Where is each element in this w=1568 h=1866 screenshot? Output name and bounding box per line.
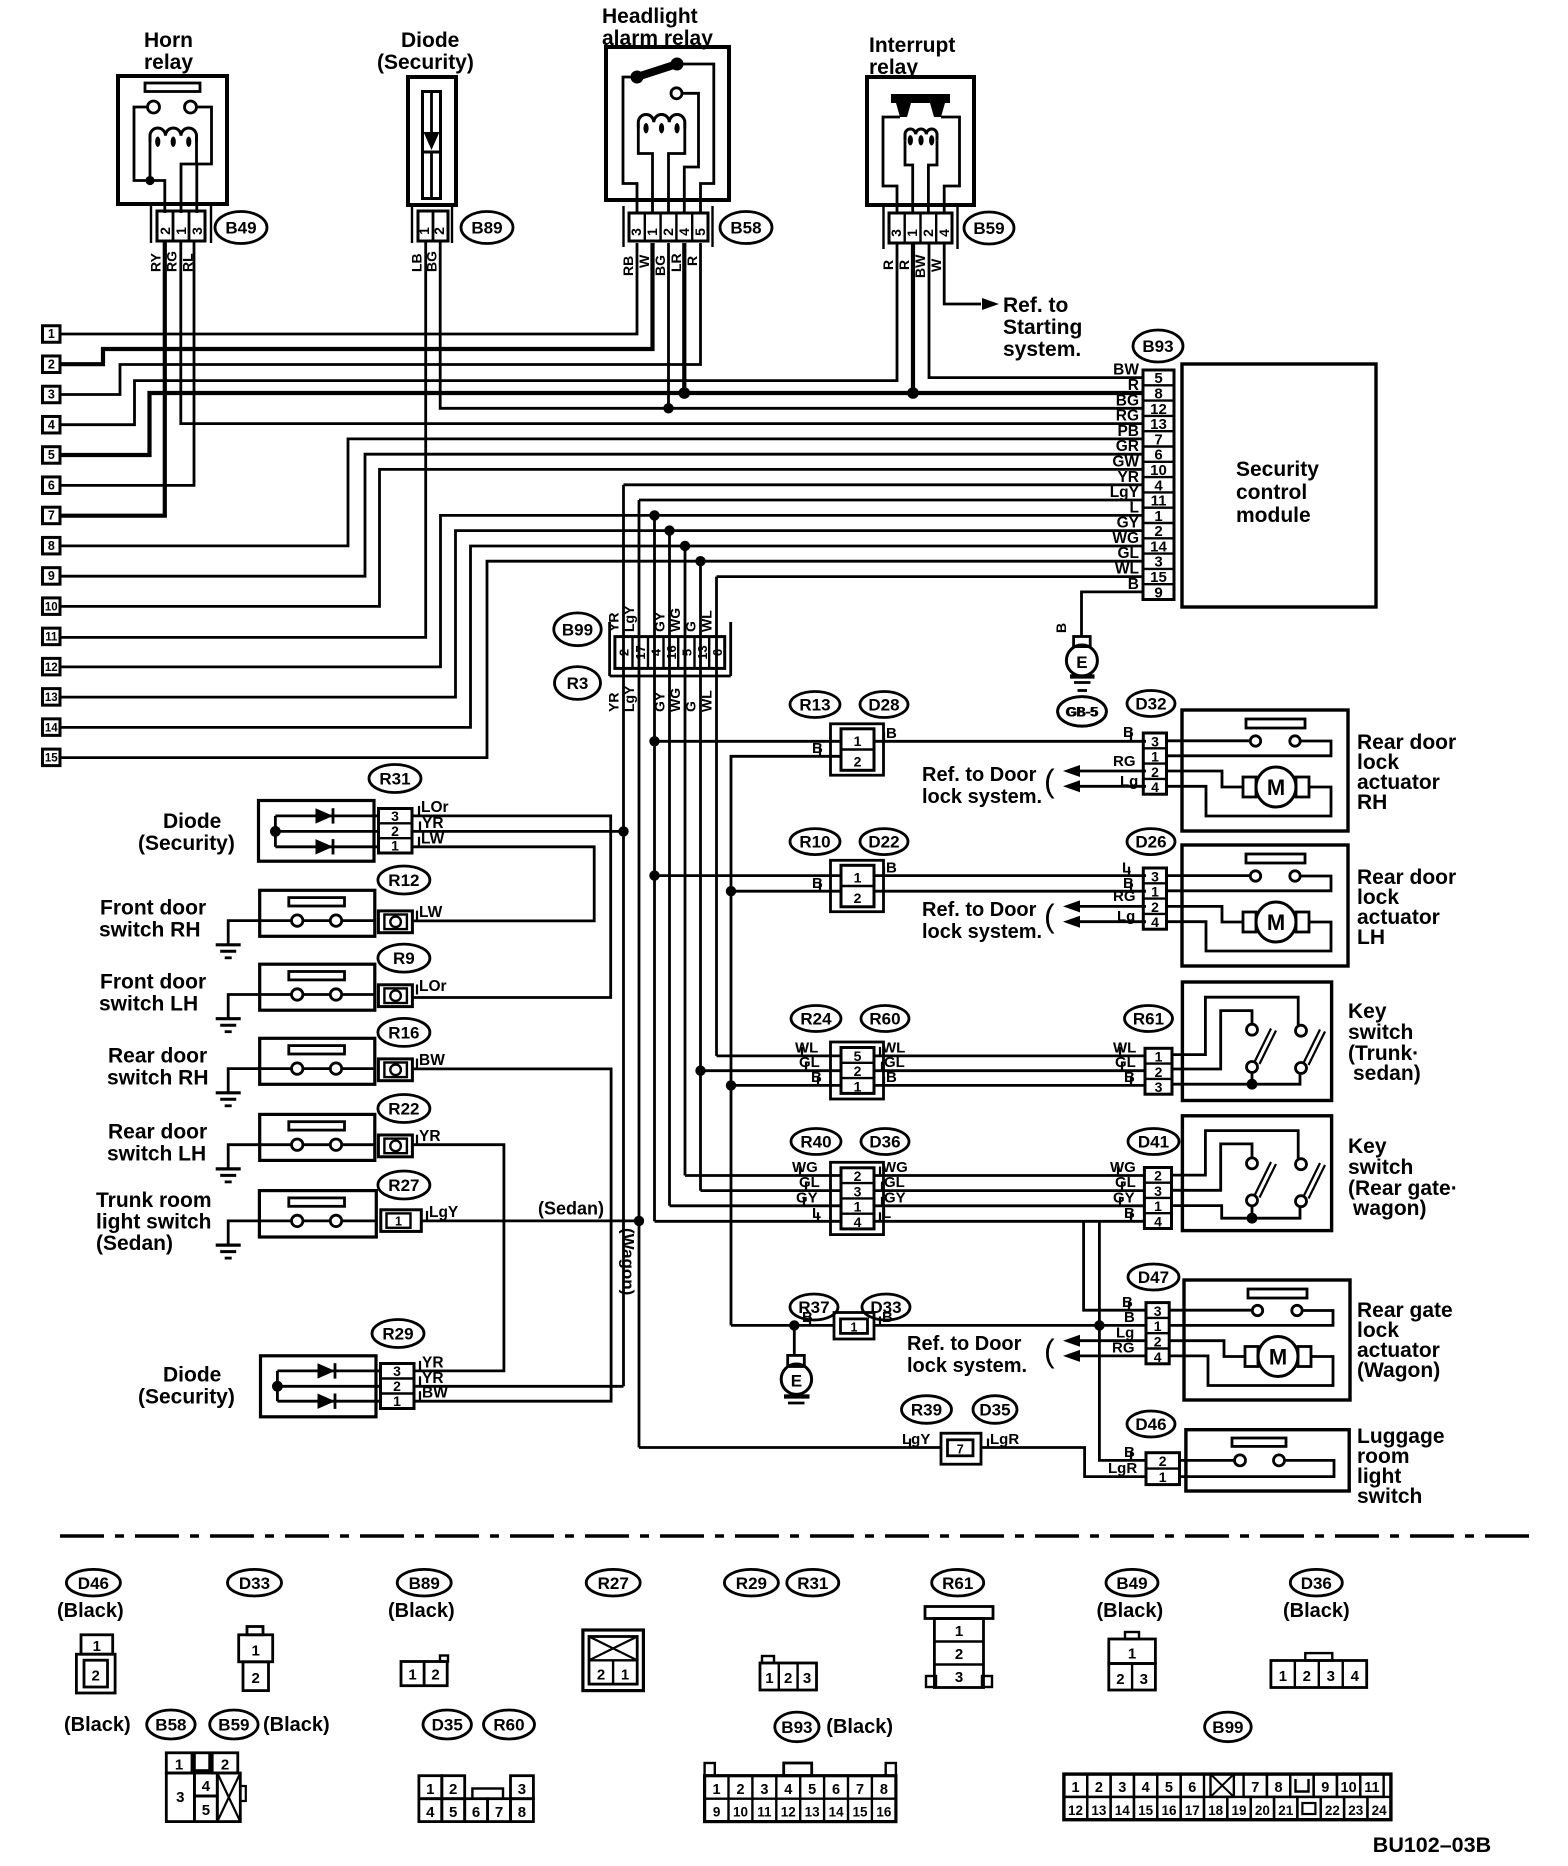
svg-text:2: 2: [393, 1378, 401, 1394]
connector face R29/R31: [762, 1656, 774, 1663]
svg-text:13: 13: [805, 1805, 821, 1820]
svg-text:1: 1: [1128, 1645, 1136, 1662]
svg-text:LgY: LgY: [902, 1431, 930, 1448]
node junction B / ground E: [789, 1320, 799, 1330]
switch D46 slider bar: [1232, 1438, 1286, 1446]
svg-text:R39: R39: [911, 1401, 942, 1420]
svg-text:1: 1: [48, 327, 55, 341]
wire YR net: R22 to R29 pin3: [414, 1145, 504, 1371]
wire B58 contact to pin 4: [682, 93, 699, 213]
svg-text:2: 2: [854, 754, 862, 770]
svg-text:D41: D41: [1138, 1133, 1169, 1152]
svg-text:7: 7: [957, 1442, 964, 1456]
wire GL net: R60 to R61 pin2: [874, 1069, 1145, 1072]
svg-text:3: 3: [854, 1183, 862, 1199]
connector face R61: [925, 1607, 993, 1619]
switch R22 box: [260, 1114, 375, 1160]
node R31 common junction: [270, 826, 281, 837]
svg-text:1: 1: [175, 1756, 183, 1773]
node terminal box 14: [43, 719, 61, 736]
connector B58 cells: [629, 213, 708, 241]
svg-text:D28: D28: [868, 696, 899, 715]
svg-text:(: (: [1044, 763, 1055, 799]
svg-text:R27: R27: [598, 1574, 629, 1593]
wire switch R27 to ground: [228, 1221, 291, 1245]
node terminal box 10: [43, 598, 61, 615]
svg-text:Rear door: Rear door: [108, 1121, 207, 1144]
svg-text:5: 5: [48, 448, 55, 462]
svg-text:1: 1: [621, 1666, 629, 1683]
relay B59 contact left: [896, 103, 911, 117]
svg-text:1: 1: [713, 1782, 721, 1798]
connector id R27: [378, 1171, 430, 1199]
node junction B riser / R24 wire: [726, 1080, 736, 1090]
ground GB-5 bars: [1070, 674, 1095, 678]
svg-text:3: 3: [1327, 1668, 1335, 1685]
node terminal box 13: [43, 689, 61, 706]
connector id R10: [790, 829, 840, 855]
wire B net: R10 pin2 to B riser: [731, 890, 841, 893]
svg-text:3: 3: [1151, 733, 1159, 749]
wire label GL (R60 right): [881, 1062, 883, 1071]
svg-text:18: 18: [1208, 1803, 1224, 1818]
wire label BW (R16): [416, 1059, 418, 1069]
svg-text:E: E: [1076, 653, 1087, 672]
wire switch R22 to ground: [228, 1145, 291, 1169]
svg-text:R31: R31: [379, 770, 410, 789]
wire label GY (D41): [1119, 1197, 1121, 1206]
wire GR net: box9 to B93 pin6: [60, 454, 1143, 576]
svg-text:B: B: [1123, 724, 1134, 741]
svg-text:15: 15: [852, 1805, 868, 1820]
svg-text:4: 4: [202, 1778, 211, 1795]
wire B net: D22 to D26 pin1: [874, 890, 1146, 893]
svg-text:16: 16: [1161, 1803, 1177, 1818]
svg-text:21: 21: [1278, 1803, 1294, 1818]
wire B59 pin4 to starting system with arrow: [944, 243, 981, 304]
svg-text:6: 6: [1188, 1780, 1196, 1796]
relay B59 interrupt relay box: [867, 77, 974, 205]
wire D41 pin3 to switch1 top: [1172, 1144, 1253, 1190]
svg-text:LW: LW: [421, 831, 445, 848]
wire label WL (R60 right): [879, 1047, 881, 1056]
svg-text:switch LH: switch LH: [107, 1143, 206, 1166]
svg-text:20: 20: [1255, 1803, 1270, 1818]
node junction GY net / box13 line: [664, 525, 674, 535]
wire label GL (D41): [1121, 1182, 1123, 1191]
svg-text:B: B: [886, 1069, 897, 1086]
svg-text:B99: B99: [1212, 1718, 1243, 1737]
key switch R61 connector cells: [1145, 1048, 1172, 1094]
svg-text:R29: R29: [736, 1574, 767, 1593]
wire BW net: R16 to R29 pin1: [412, 1069, 611, 1401]
wire GL net: riser to R24 pin2: [701, 1069, 842, 1072]
svg-text:4: 4: [48, 418, 55, 432]
connector R39/D35 shell: [941, 1433, 981, 1464]
relay B58 contact blade (closed): [637, 64, 677, 77]
svg-text:R60: R60: [869, 1010, 900, 1029]
svg-text:switch RH: switch RH: [107, 1067, 209, 1090]
connector id R12: [378, 866, 430, 894]
svg-text:LgY: LgY: [621, 685, 637, 712]
relay B58 headlight alarm relay box: [606, 47, 729, 200]
wire WG net: riser to R40 pin2: [685, 1174, 841, 1177]
switch D46 box: [1186, 1430, 1349, 1491]
svg-text:2: 2: [955, 1646, 963, 1663]
wire D32 switch return to pin1: [1167, 741, 1332, 756]
svg-text:sedan): sedan): [1353, 1062, 1421, 1085]
svg-text:RH: RH: [1357, 791, 1387, 814]
wire label YR (R29 pin3): [419, 1361, 421, 1371]
wire label B (D33 right): [879, 1316, 881, 1325]
wire label LgY (R39): [909, 1439, 911, 1448]
svg-text:13: 13: [1091, 1803, 1107, 1818]
svg-text:B: B: [812, 875, 823, 892]
wire YR net: vertical B99 riser to B93 pin4: [624, 483, 1144, 486]
svg-text:(Black): (Black): [1097, 1600, 1164, 1622]
svg-text:1: 1: [854, 870, 862, 886]
switch R27 box: [259, 1191, 376, 1237]
wire label YR (R22): [416, 1135, 418, 1145]
node junction L riser / R13 wire: [649, 736, 659, 746]
wire RY net: B49 pin2 to box7 (thick): [60, 242, 165, 516]
wire GL net: vertical B99 riser: [699, 561, 702, 1190]
svg-text:LR: LR: [668, 253, 684, 272]
diode assembly R31 box: [259, 801, 375, 862]
ground (R12): [216, 943, 241, 946]
wire B net: drop to D46 pin2: [1099, 1221, 1146, 1460]
svg-text:8: 8: [48, 539, 55, 553]
switch R9 box: [260, 964, 375, 1010]
wire WG net: vertical B99 riser: [684, 546, 687, 1176]
svg-text:4: 4: [1351, 1668, 1360, 1685]
wire label WL (R24 left): [801, 1047, 803, 1056]
svg-text:3: 3: [393, 1363, 401, 1379]
svg-text:module: module: [1236, 504, 1311, 527]
switch R9 slider bar: [289, 972, 345, 980]
svg-text:R3: R3: [567, 674, 589, 693]
diode R31-2 (bottom): [275, 845, 378, 848]
connector R13/D28 cells: [841, 729, 874, 771]
svg-text:LW: LW: [419, 904, 443, 921]
svg-text:1: 1: [1159, 1469, 1167, 1485]
wire D32 pin2 to motor: [1167, 771, 1244, 787]
switch R16 slider bar: [289, 1046, 345, 1054]
wire B net: D33 to D47 pin1: [874, 1324, 1146, 1327]
connector id B89 (bottom): [397, 1569, 451, 1596]
connector R29 cells: [381, 1364, 415, 1409]
svg-text:16: 16: [664, 645, 679, 659]
wire B58 pin2 drop to BG net: [667, 243, 670, 408]
svg-text:LOr: LOr: [421, 799, 449, 816]
motor M (D32): [1256, 767, 1296, 807]
wire R29 common rail: [276, 1371, 279, 1401]
connector face D35/R60: [419, 1776, 442, 1799]
wire R31 common rail: [274, 816, 277, 847]
svg-text:LgY: LgY: [621, 605, 637, 632]
svg-text:control: control: [1236, 481, 1307, 504]
wire RG net: B49 pin1 to B93 pin13: [181, 242, 1143, 424]
wire horn relay left rail to pin 2: [134, 107, 165, 213]
ref arrows to door lock system (row Wagon): [1080, 1339, 1146, 1342]
connector R31 cells: [379, 809, 413, 854]
wire switch R9 internal: [303, 993, 330, 996]
switch D46 connector cells: [1146, 1453, 1180, 1485]
wire label WG (R40 left): [799, 1167, 801, 1176]
svg-text:3: 3: [391, 808, 399, 824]
svg-text:switch LH: switch LH: [99, 992, 198, 1015]
svg-text:R29: R29: [382, 1325, 413, 1344]
svg-text:lock system.: lock system.: [907, 1355, 1027, 1377]
svg-text:light switch: light switch: [96, 1210, 212, 1233]
svg-text:5: 5: [692, 228, 708, 236]
wire W net: box2 to B58 pin1 (thick): [60, 243, 653, 364]
wire B net: drop to D47 pin3: [1084, 1221, 1146, 1310]
wire label B (R60 right): [883, 1076, 885, 1085]
wire D41 pin1 common bus: [1172, 1206, 1301, 1219]
node terminal box 3: [43, 386, 61, 403]
switch R9 contact left: [292, 989, 303, 1000]
wire GY net: riser to R40 pin1: [670, 1204, 842, 1207]
connector id B89: [461, 212, 513, 244]
svg-text:B59: B59: [973, 219, 1004, 238]
svg-text:B58: B58: [155, 1716, 186, 1735]
connector B99/R3 shell: [608, 622, 611, 676]
wire WL net: R60 to R61 pin1: [874, 1055, 1145, 1058]
wire B net: D36 pin4 to D41 pin4: [874, 1220, 1144, 1223]
switch R27 contact right: [330, 1215, 341, 1226]
svg-text:1: 1: [644, 228, 660, 236]
coil relay B59: [905, 129, 937, 140]
wire D26 motor to pin4: [1167, 922, 1332, 951]
svg-text:17: 17: [633, 645, 648, 659]
wire D32 pin3 to switch: [1167, 739, 1251, 742]
connector face D33: [247, 1627, 263, 1635]
svg-text:13: 13: [45, 692, 58, 704]
svg-text:D35: D35: [979, 1401, 1010, 1420]
connector id R22: [378, 1095, 430, 1123]
wire D47 pin2 to motor: [1169, 1341, 1245, 1357]
wire L net: riser to R40 pin4: [655, 1220, 842, 1223]
svg-text:D36: D36: [869, 1133, 900, 1152]
connector id R24: [791, 1006, 841, 1032]
motor M (D26): [1256, 902, 1296, 942]
key switch D41 blades: [1255, 1162, 1272, 1196]
svg-text:2: 2: [157, 227, 173, 235]
wire label B (D41): [1130, 1212, 1132, 1221]
wire label LgY (R27): [426, 1211, 428, 1221]
svg-text:RG: RG: [1113, 753, 1136, 770]
svg-text:2: 2: [1151, 764, 1159, 780]
wire B59 pin2 drop to R net (thick): [911, 243, 915, 393]
ground id GB-5: [1058, 697, 1107, 727]
svg-text:1: 1: [426, 1781, 434, 1798]
svg-text:15: 15: [45, 753, 58, 765]
wire LgY net: vertical B99 riser to B93 pin11: [639, 499, 1143, 502]
svg-text:R10: R10: [799, 833, 830, 852]
ground GB-5 terminal box: [1074, 637, 1091, 647]
svg-text:R40: R40: [800, 1133, 831, 1152]
wire label GY (D36 right): [881, 1197, 883, 1206]
wire GW net: box10 to B93 pin10: [60, 469, 1143, 606]
connector R24/R60 shell: [831, 1042, 884, 1099]
wire BG net: B89 pin2 to B93 pin12: [440, 242, 1143, 408]
wire B net: B93 pin9 to ground: [1082, 592, 1144, 637]
connector R37/D33 cell 1: [841, 1319, 868, 1334]
svg-text:(Security): (Security): [138, 832, 235, 855]
wire GY net: vertical B99 riser: [668, 531, 671, 1206]
svg-text:R12: R12: [388, 871, 419, 890]
wire B net: R60 to R61 pin3: [874, 1084, 1145, 1087]
svg-text:Trunk room: Trunk room: [96, 1189, 212, 1212]
svg-text:RY: RY: [148, 252, 164, 272]
motor M (D47): [1258, 1337, 1298, 1377]
svg-text:24: 24: [1372, 1803, 1388, 1818]
connector face B99 (bottom): [1064, 1774, 1391, 1820]
svg-text:G: G: [683, 701, 699, 712]
node junction B58 pin4 / R net: [679, 387, 691, 399]
connector id R40: [791, 1129, 841, 1155]
connector id B49: [215, 212, 267, 244]
diode B89 box: [408, 77, 456, 205]
wire label BW (R29 pin1): [419, 1391, 421, 1401]
wire label B (D22 right): [883, 867, 885, 876]
svg-text:relay: relay: [144, 51, 193, 74]
node D41 bus junction: [1247, 1213, 1258, 1224]
svg-text:2: 2: [854, 1063, 862, 1079]
svg-text:LOr: LOr: [419, 978, 447, 995]
relay B49 horn relay box: [118, 76, 227, 204]
svg-text:wagon): wagon): [1352, 1197, 1427, 1220]
wire YR net: R31 pin2 to YR riser: [412, 830, 624, 833]
connector face B49: [1125, 1632, 1139, 1639]
connector id R13: [790, 692, 840, 718]
switch R27 contact left: [292, 1215, 303, 1226]
diode (security) symbol B89: [424, 132, 440, 150]
svg-text:3: 3: [888, 229, 904, 237]
svg-text:(Sedan): (Sedan): [538, 1199, 604, 1219]
wire label B (D32): [1130, 732, 1132, 741]
connector B59 cells: [889, 213, 952, 243]
connector B89 shell: [411, 206, 413, 243]
wire B net: riser to R24 pin1: [731, 1084, 841, 1087]
svg-text:17: 17: [1185, 1803, 1200, 1818]
svg-text:Ref. to Door: Ref. to Door: [922, 899, 1037, 921]
svg-text:D46: D46: [1135, 1415, 1166, 1434]
svg-text:(: (: [1044, 898, 1055, 934]
svg-text:R: R: [880, 260, 896, 270]
wire L net: vertical B99 riser: [653, 515, 656, 1221]
svg-text:1: 1: [1154, 1318, 1162, 1334]
wire PB net: box8 to B93 pin7: [60, 439, 1143, 546]
svg-text:GY: GY: [884, 1189, 906, 1206]
svg-text:2: 2: [252, 1670, 260, 1687]
connector id B93 (bottom): [775, 1712, 819, 1742]
svg-text:G8-5: G8-5: [1066, 703, 1097, 719]
node junction GL riser / R24 wire: [695, 1066, 705, 1076]
wire B net: horizontal to R37: [731, 1324, 834, 1327]
actuator D26 top bar: [1246, 854, 1305, 863]
switch R16 box: [260, 1038, 375, 1084]
wire switch R12 internal: [303, 919, 330, 922]
connector face B89: [440, 1656, 448, 1662]
node junction B riser / R10 wire: [726, 886, 736, 896]
svg-text:M: M: [1269, 1345, 1287, 1370]
wire label B (D26): [1130, 882, 1132, 891]
svg-text:lock system.: lock system.: [922, 921, 1042, 943]
svg-text:22: 22: [1325, 1803, 1340, 1818]
connector id B99 (bottom): [1205, 1712, 1252, 1742]
svg-text:2: 2: [431, 227, 447, 235]
wire L net: D22 to D26 pin3: [874, 874, 1146, 877]
switch R22 contact left: [292, 1139, 303, 1150]
svg-text:D47: D47: [1138, 1268, 1169, 1287]
svg-text:13: 13: [695, 645, 710, 659]
connector id D36: [861, 1129, 909, 1155]
ground (R27): [216, 1243, 241, 1246]
svg-text:2: 2: [1116, 1671, 1124, 1688]
svg-text:12: 12: [45, 662, 58, 674]
svg-text:3: 3: [48, 388, 55, 402]
node terminal box 15: [43, 749, 61, 766]
wire LgY net: riser to R39: [639, 1446, 941, 1449]
wire D26 pin3 to switch: [1167, 874, 1251, 877]
svg-text:8: 8: [1275, 1780, 1283, 1796]
svg-text:5: 5: [1165, 1780, 1173, 1796]
switch R16 contact right: [330, 1063, 341, 1074]
connector R27 pin 1: [381, 1210, 422, 1232]
svg-text:LgR: LgR: [990, 1431, 1019, 1448]
svg-text:9: 9: [1154, 584, 1162, 601]
svg-text:11: 11: [757, 1805, 772, 1820]
svg-text:RG: RG: [1112, 1340, 1135, 1357]
wire switch R12 to ground: [228, 921, 291, 945]
ground (R9): [216, 1017, 241, 1020]
switch R12 slider bar: [289, 898, 345, 906]
wire WG net: D36 to D41 pin2: [874, 1174, 1144, 1177]
key switch R61 blades: [1255, 1029, 1272, 1063]
connector id D33 (bottom): [228, 1569, 282, 1596]
connector face B93 (bottom): [705, 1776, 896, 1822]
svg-text:11: 11: [1364, 1780, 1379, 1796]
svg-text:B93: B93: [781, 1718, 812, 1737]
svg-text:2: 2: [48, 357, 55, 371]
svg-text:R61: R61: [942, 1574, 973, 1593]
svg-text:B49: B49: [225, 219, 256, 238]
relay B59 contact bar: [891, 94, 950, 103]
connector R16 pin: [378, 1059, 412, 1081]
diode R29-2 (bottom): [277, 1400, 380, 1403]
svg-text:4: 4: [1154, 1214, 1162, 1230]
wire diode cathode stub: [430, 152, 433, 199]
switch D46 contacts: [1235, 1455, 1246, 1466]
svg-text:LH: LH: [1357, 926, 1385, 949]
connector B93 pin strip: [1143, 370, 1174, 600]
connector R22 pin: [378, 1135, 412, 1157]
wire L net: riser to R13 pin1: [655, 740, 842, 743]
svg-text:4: 4: [676, 228, 692, 236]
wire label B (D46): [1130, 1451, 1132, 1460]
node terminal box 12: [43, 658, 61, 675]
wire GL net: box15 to B93 pin3: [60, 561, 1143, 757]
svg-text:B: B: [1124, 1444, 1135, 1461]
node junction L riser / R10 wire: [649, 870, 659, 880]
svg-text:1: 1: [854, 733, 862, 749]
wire LOr net: R31 pin3 to R9: [412, 816, 611, 998]
horn relay contact right: [185, 101, 197, 113]
wire label YR (R31): [419, 821, 421, 831]
actuator D32 switch contacts: [1250, 736, 1260, 746]
